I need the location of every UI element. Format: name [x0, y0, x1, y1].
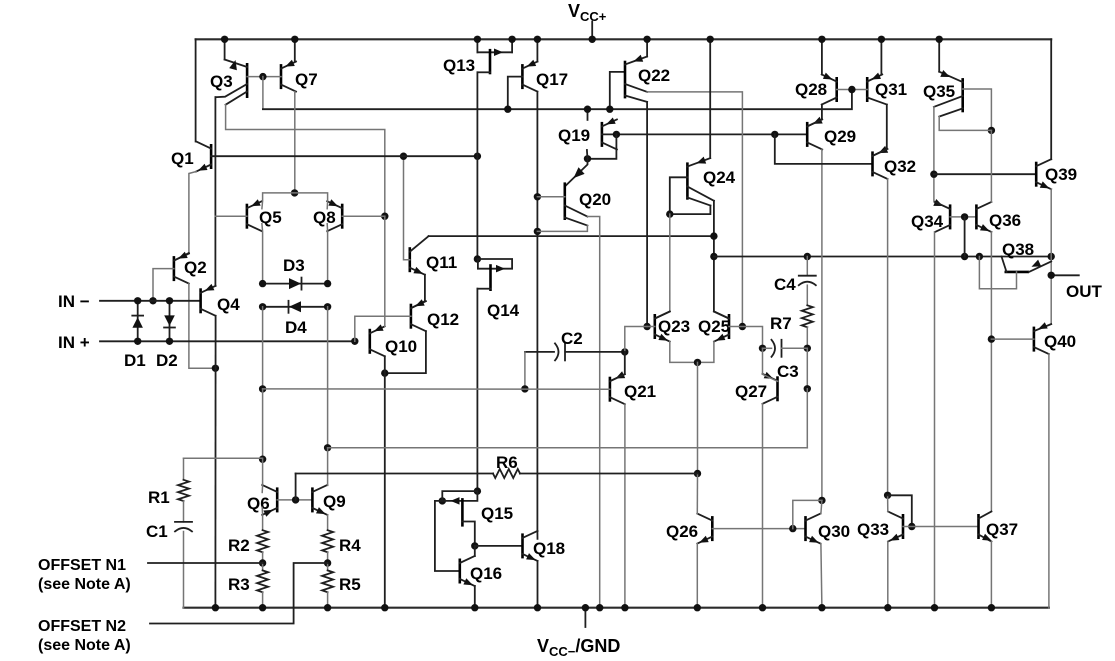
wire Q2 base to IN-: [149, 269, 174, 305]
wire IN+ line: [100, 338, 358, 345]
label Q25: [698, 317, 730, 336]
wire Q18 emitter: [534, 561, 541, 612]
transistor Q24 (dual-collector): [687, 157, 714, 206]
wire Q35 collector2 tie: [939, 117, 991, 131]
transistor Q18: [523, 531, 538, 561]
svg-text:Q33: Q33: [857, 520, 889, 539]
wire y=389 line: [263, 388, 610, 390]
wire Q30 diode loop: [793, 500, 822, 528]
label Q5: [259, 208, 282, 227]
label VCC-/GND: [537, 636, 620, 659]
svg-text:IN −: IN −: [58, 292, 90, 311]
svg-text:(see Note A): (see Note A): [38, 637, 131, 654]
svg-text:Q7: Q7: [295, 70, 318, 89]
svg-text:Q4: Q4: [217, 295, 240, 314]
wire Q7 collector down: [291, 92, 298, 197]
svg-text:C2: C2: [561, 329, 583, 348]
label C1: [146, 522, 168, 541]
wire Q19 emitter from bias line: [584, 106, 591, 120]
transistor Q30: [806, 514, 821, 544]
svg-text:Q22: Q22: [638, 66, 670, 85]
wire Q33 collector: [887, 495, 889, 511]
wire Q3 collector1 to Q5 base: [214, 97, 216, 286]
svg-text:Q32: Q32: [884, 157, 916, 176]
wire Q30 collector: [821, 500, 822, 513]
wire VCC-/GND bottom rail: [184, 607, 1049, 609]
wire Q1 collector to rail: [195, 39, 197, 141]
transistor Q11: [410, 236, 429, 275]
wire IN- line: [100, 300, 201, 302]
svg-text:Q34: Q34: [911, 212, 944, 231]
VCC- supply lead: [582, 604, 589, 627]
transistor Q8: [327, 199, 342, 231]
svg-text:Q17: Q17: [536, 70, 568, 89]
wire Q31 collector to Q32: [873, 105, 889, 156]
wire Q4 emitter down: [212, 316, 219, 612]
svg-text:R2: R2: [228, 536, 250, 555]
transistor Q7: [281, 60, 296, 92]
svg-text:Q39: Q39: [1045, 165, 1077, 184]
label Q4: [217, 295, 240, 314]
svg-text:Q2: Q2: [184, 258, 207, 277]
wire Q21 emitter: [621, 404, 628, 611]
label OUT: [1066, 282, 1103, 301]
wire Q40 emitter to rail corner: [1048, 354, 1050, 608]
wire Q23-Q25 emitters: [670, 342, 714, 367]
transistor Q3 (dual-collector): [215, 60, 247, 105]
resistor R6: [493, 469, 520, 478]
label D2: [156, 351, 178, 370]
wire Q7 emitter to rail: [291, 36, 298, 62]
svg-text:Q29: Q29: [824, 127, 856, 146]
svg-text:R1: R1: [148, 488, 170, 507]
wire R1 top link: [184, 457, 263, 459]
wire Q19 base line to Q29: [602, 131, 807, 138]
wire bias line y=109: [263, 90, 852, 110]
svg-text:Q31: Q31: [875, 80, 907, 99]
label Q30: [818, 522, 850, 541]
wire Q3 emitter to rail: [221, 36, 228, 60]
label Q2: [184, 258, 207, 277]
label Q37: [986, 520, 1018, 539]
transistor Q10: [370, 324, 385, 356]
wire Q19 diode loop: [584, 134, 617, 162]
jfet Q13: [474, 36, 516, 75]
transistor Q17: [522, 60, 537, 92]
wire Q17 base down: [504, 77, 522, 113]
wire Q1-Q11-Q13 base line: [211, 153, 481, 160]
resistor R5: [322, 563, 333, 611]
label OFFSET N1: [38, 557, 131, 593]
svg-text:Q35: Q35: [923, 82, 955, 101]
label Q23: [658, 317, 690, 336]
wire Q23 collector up: [669, 214, 671, 311]
transistor Q12: [411, 299, 426, 331]
wire Q27 emitter: [759, 404, 766, 612]
svg-text:Q13: Q13: [443, 56, 475, 75]
transistor Q39: [1036, 159, 1051, 189]
wire Q15 gate to Q16 base: [435, 501, 460, 571]
transistor Q40: [1034, 322, 1051, 354]
wire Q24 emitter to rail: [707, 36, 714, 159]
label Q19: [558, 126, 590, 145]
wire Q33-Q37 base line: [903, 526, 979, 528]
wire OUT stub: [1048, 272, 1079, 279]
wire Q35 collector1 down: [930, 107, 950, 209]
wire Q20 collector1 down: [587, 217, 603, 612]
svg-text:OFFSET N2: OFFSET N2: [38, 618, 126, 635]
wire Q8 base: [342, 215, 385, 217]
transistor Q19: [602, 118, 617, 150]
wire Q24 base loop: [666, 177, 710, 218]
label R2: [228, 536, 250, 555]
wire Q8 collector down: [326, 224, 328, 284]
label D4: [285, 318, 307, 337]
label IN-: [58, 292, 90, 311]
wire Q40 base: [991, 338, 1034, 340]
wire Q39 base line: [934, 173, 1036, 175]
wire Q9 emitter to R4: [327, 515, 329, 530]
wire Q3 collector2 bias line: [226, 105, 389, 220]
label Q35: [923, 82, 955, 101]
wire OFFSET N2 lead: [150, 563, 328, 624]
transistor Q32: [873, 149, 888, 179]
transistor Q9: [312, 485, 327, 515]
wire right rail down: [1050, 39, 1052, 159]
capacitor C2: [525, 343, 629, 360]
transistor Q6: [262, 485, 277, 517]
label Q40: [1044, 332, 1076, 351]
wire base node up to R6: [295, 474, 297, 500]
wire Q29 base drop to Q32: [775, 134, 873, 164]
label Q18: [533, 539, 565, 558]
wire Q12 emitter: [381, 331, 426, 377]
transistor Q26: [697, 514, 712, 544]
wire Q1 emitter to Q2: [174, 172, 196, 261]
VCC+ supply lead: [589, 22, 596, 44]
transistor Q33: [888, 512, 903, 542]
wire Q31 emitter to rail: [878, 36, 885, 75]
label Q9: [323, 492, 346, 511]
wire Q6 collector: [261, 459, 263, 492]
label C3: [777, 362, 799, 381]
label Q26: [666, 522, 698, 541]
svg-text:OUT: OUT: [1066, 282, 1103, 301]
wire Q26-Q30 base line: [712, 525, 805, 532]
label Q20: [579, 190, 611, 209]
label Q1: [171, 149, 194, 168]
wire Q25 base to C3: [729, 327, 766, 352]
wire Q35 base loop: [963, 89, 995, 134]
wire Q39 emitter down: [1050, 189, 1052, 324]
wire Q5-Q8 emitter top: [262, 193, 328, 209]
label Q34: [911, 212, 944, 231]
label Q39: [1045, 165, 1077, 184]
label Q36: [989, 211, 1021, 230]
wire Q10-Q12 base loop: [355, 316, 411, 341]
transistor Q1: [196, 142, 211, 172]
wire R7 node to Q27 base: [804, 348, 811, 392]
svg-text:Q24: Q24: [703, 168, 736, 187]
wire Q22 emitter to rail: [643, 36, 650, 57]
wire Q10 collector up: [384, 216, 386, 326]
transistor Q23: [655, 312, 670, 342]
resistor R4: [322, 530, 333, 567]
wire Q25 collector elbow: [714, 312, 729, 319]
wire Q13-Q14 gate link: [474, 156, 481, 263]
svg-text:R3: R3: [228, 575, 250, 594]
svg-text:Q40: Q40: [1044, 332, 1076, 351]
svg-text:Q11: Q11: [426, 253, 457, 272]
svg-text:Q38: Q38: [1002, 240, 1034, 259]
wire Q19 to Q20 emitter: [565, 159, 588, 187]
label Q22: [638, 66, 670, 85]
svg-text:C3: C3: [777, 362, 799, 381]
svg-text:Q9: Q9: [323, 492, 346, 511]
wire D-anode column down: [324, 307, 331, 452]
wire Q23 base: [647, 326, 655, 328]
label Q12: [427, 310, 459, 329]
wire VCC+ top rail: [196, 38, 1052, 40]
wire Q11 collector line y=236: [429, 235, 714, 237]
wire Q28 collector to Q29: [807, 105, 823, 127]
wire Q34 collector down: [931, 232, 938, 612]
svg-text:Q19: Q19: [558, 126, 590, 145]
wire C2 left leg: [521, 352, 528, 393]
label Q24: [703, 168, 736, 187]
svg-text:C4: C4: [774, 275, 796, 294]
label R4: [339, 536, 361, 555]
wire Q11 base up: [400, 153, 410, 260]
svg-text:Q10: Q10: [385, 337, 417, 356]
diode D3: [259, 278, 331, 290]
svg-text:Q6: Q6: [247, 494, 270, 513]
wire Q3-Q7 base tie: [247, 73, 281, 80]
wire Q10 emitter to rail: [381, 373, 388, 611]
svg-text:Q12: Q12: [427, 310, 459, 329]
label Q21: [624, 382, 656, 401]
label VCC+: [568, 1, 607, 24]
wire Q34-Q36 base tie: [950, 213, 976, 220]
transistor Q21: [610, 374, 625, 404]
label Q10: [385, 337, 417, 356]
label D1: [124, 351, 146, 370]
svg-text:Q8: Q8: [313, 208, 336, 227]
svg-text:D4: D4: [285, 318, 307, 337]
label R1: [148, 488, 170, 507]
resistor R7: [802, 285, 813, 352]
label Q7: [295, 70, 318, 89]
wire Q28-Q31 base tie: [837, 86, 868, 93]
wire Q28 emitter to rail: [818, 36, 825, 75]
svg-text:Q3: Q3: [210, 72, 233, 91]
wire Q20 collector2 tie: [537, 226, 587, 232]
label Q38: [1002, 240, 1034, 259]
svg-text:OFFSET N1: OFFSET N1: [38, 557, 126, 574]
wire Q26 collector up: [696, 474, 698, 514]
transistor Q4: [201, 284, 216, 316]
label Q13: [443, 56, 475, 75]
svg-text:Q30: Q30: [818, 522, 850, 541]
wire Q13 drain down: [476, 72, 478, 156]
label R3: [228, 575, 250, 594]
svg-text:R7: R7: [770, 314, 792, 333]
wire Q9 collector up: [327, 448, 329, 486]
wire Q11 emitter to Q12: [411, 275, 425, 309]
transistor Q37: [979, 512, 992, 542]
label Q29: [824, 127, 856, 146]
wire Q27 collector: [763, 348, 778, 381]
wire Q21 collector: [610, 352, 625, 381]
wire Q33 diode loop: [888, 495, 916, 530]
label R5: [339, 575, 361, 594]
transistor Q29: [807, 119, 822, 149]
svg-text:R6: R6: [496, 453, 518, 472]
wire Q6-Q9 base tie: [277, 496, 312, 503]
label Q28: [795, 80, 827, 99]
svg-text:D1: D1: [124, 351, 146, 370]
svg-text:Q20: Q20: [579, 190, 611, 209]
label Q31: [875, 80, 907, 99]
label Q3: [210, 72, 233, 91]
wire base drop to y=256: [964, 217, 966, 257]
svg-text:Q25: Q25: [698, 317, 730, 336]
svg-text:Q18: Q18: [533, 539, 565, 558]
label Q14: [487, 301, 520, 320]
label Q15: [481, 504, 513, 523]
wire y=256 line: [714, 253, 1055, 260]
wire Q32 collector long: [884, 179, 891, 499]
label Q27: [735, 382, 767, 401]
resistor R2: [257, 530, 268, 567]
wire Q16 collector: [474, 546, 476, 556]
label Q8: [313, 208, 336, 227]
wire Q27 base node down: [806, 389, 808, 448]
wire Q19 collector: [586, 150, 589, 159]
transistor Q34: [935, 202, 950, 232]
label Q33: [857, 520, 889, 539]
label IN+: [58, 333, 90, 352]
label C4: [774, 275, 796, 294]
wire Q35 emitter to rail: [936, 36, 943, 72]
svg-text:Q23: Q23: [658, 317, 690, 336]
label Q32: [884, 157, 916, 176]
capacitor C1: [175, 522, 192, 608]
transistor Q22 (dual-collector): [625, 55, 647, 102]
wire Q22 collector2 down: [643, 102, 650, 330]
svg-text:D2: D2: [156, 351, 178, 370]
wire Q22 base drop: [606, 72, 625, 113]
wire OFFSET N1 lead: [148, 562, 263, 564]
wire Q22 collector1 right: [647, 92, 746, 330]
jfet Q15: [439, 487, 482, 549]
wire Q5 collector down: [261, 224, 264, 284]
wire Q6 emitter to R2: [261, 507, 263, 530]
wire Q30 emitter: [818, 544, 825, 612]
label R7: [770, 314, 792, 333]
label Q16: [470, 564, 502, 583]
transistor Q2: [174, 252, 189, 284]
svg-text:R5: R5: [339, 575, 361, 594]
transistor Q20 (dual-collector): [565, 182, 588, 225]
label Q6: [247, 494, 270, 513]
wire Q17 emitter to rail: [534, 36, 541, 62]
wire Q26 emitter: [694, 544, 701, 612]
diode D1: [132, 297, 143, 345]
svg-text:D3: D3: [283, 256, 305, 275]
label D3: [283, 256, 305, 275]
wire Q18 base: [475, 545, 523, 547]
resistor R1: [178, 458, 189, 522]
resistor R3: [257, 563, 268, 611]
svg-text:Q27: Q27: [735, 382, 767, 401]
label Q17: [536, 70, 568, 89]
wire Q18 collector: [536, 531, 538, 539]
capacitor C4: [799, 257, 816, 286]
wire C2 node up to Q23 base: [625, 327, 647, 352]
wire Q29 collector long: [818, 149, 825, 504]
wire Q5 base: [215, 215, 247, 217]
wire base drop to bias line: [262, 77, 264, 110]
svg-text:Q15: Q15: [481, 504, 513, 523]
wire Q38 base loop: [979, 257, 1016, 289]
wire Q23 collector elbow: [655, 312, 670, 319]
wire Q36 emitter down: [988, 232, 995, 512]
wire Q37 emitter: [988, 542, 995, 612]
svg-text:Q21: Q21: [624, 382, 656, 401]
transistor Q25: [714, 312, 729, 342]
wire Q36 collector up: [990, 130, 992, 202]
svg-text:Q14: Q14: [487, 301, 520, 320]
transistor Q5: [247, 199, 262, 231]
wire tail down to Q26: [694, 362, 701, 477]
svg-text:Q28: Q28: [795, 80, 827, 99]
diode D2: [164, 297, 175, 345]
svg-text:Q36: Q36: [989, 211, 1021, 230]
svg-text:(see Note A): (see Note A): [38, 576, 131, 593]
label R6: [496, 453, 518, 472]
wire Q14 source down: [476, 289, 478, 491]
label OFFSET N2: [38, 618, 131, 654]
svg-text:C1: C1: [146, 522, 168, 541]
svg-text:R4: R4: [339, 536, 361, 555]
transistor Q28: [822, 73, 837, 105]
label C2: [561, 329, 583, 348]
wire Q24 collector1 down: [710, 201, 717, 312]
wire R6 line: [296, 473, 698, 475]
svg-text:IN +: IN +: [58, 333, 90, 352]
svg-text:Q37: Q37: [986, 520, 1018, 539]
transistor Q38 (lateral): [1002, 257, 1052, 272]
wire Q2 collector: [189, 284, 219, 372]
transistor Q35 (dual-collector): [934, 70, 963, 117]
svg-text:Q1: Q1: [171, 149, 194, 168]
wire Q10 emitter: [384, 356, 386, 373]
transistor Q16: [460, 556, 475, 586]
svg-text:Q26: Q26: [666, 522, 698, 541]
transistor Q36: [976, 202, 991, 232]
capacitor C3: [763, 340, 808, 357]
wire Q17 collector long: [534, 92, 541, 531]
svg-text:Q16: Q16: [470, 564, 502, 583]
wire D-column to R1 node: [259, 389, 266, 463]
jfet Q14: [477, 259, 512, 291]
wire Q16 emitter: [471, 586, 478, 611]
transistor Q31: [867, 73, 887, 105]
diode D4: [259, 301, 331, 313]
transistor Q27: [763, 372, 778, 404]
label Q11: [426, 253, 457, 272]
